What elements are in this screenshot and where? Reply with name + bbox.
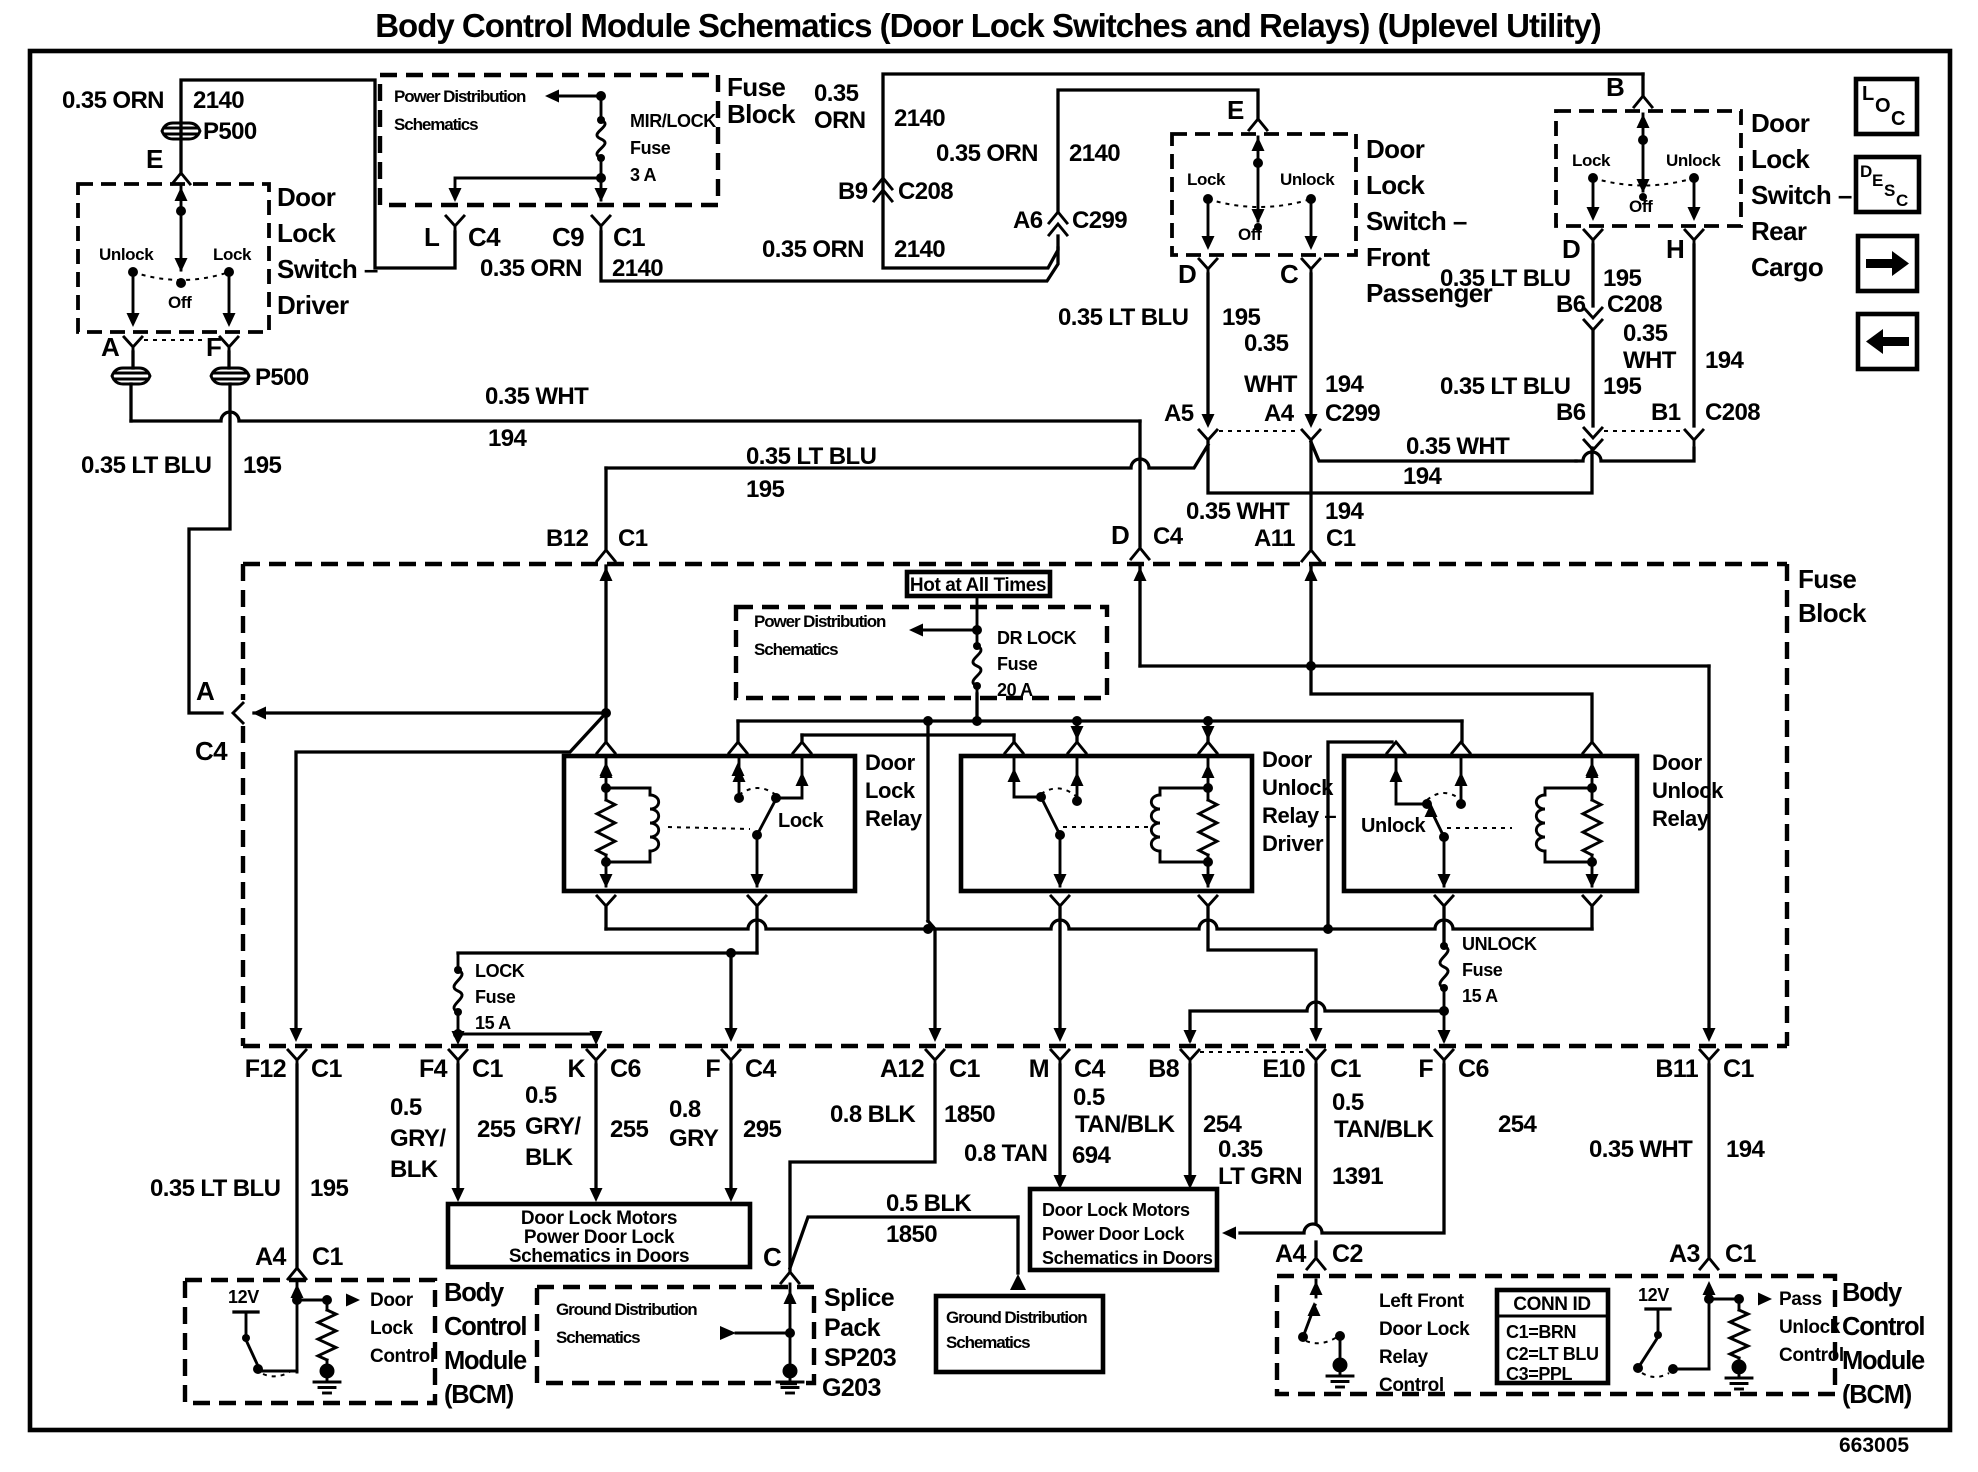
fuse UNLOCK 15A [1440, 946, 1448, 988]
svg-text:Rear: Rear [1751, 216, 1807, 246]
svg-text:Front: Front [1366, 242, 1430, 272]
wire 0.35 ORN 2140 from C1 to connector C299 pin A6 [601, 232, 1058, 281]
wire to connector C4 pin A (driver lock feed) [254, 711, 606, 714]
svg-text:0.5 BLK: 0.5 BLK [886, 1190, 972, 1217]
svg-text:F12: F12 [245, 1055, 286, 1083]
svg-text:194: 194 [1325, 371, 1364, 398]
svg-text:K: K [568, 1055, 586, 1083]
svg-text:C2=LT BLU: C2=LT BLU [1506, 1344, 1599, 1364]
wire 254 / 0.35 LT GRN from B8 to door lock motors [1188, 1065, 1191, 1180]
BCM door lock control driver [296, 1283, 299, 1372]
svg-text:C1: C1 [1330, 1055, 1361, 1083]
svg-text:Off: Off [1629, 197, 1653, 216]
unlock relay coil [1591, 756, 1594, 800]
svg-text:Pass: Pass [1779, 1289, 1822, 1310]
svg-text:O: O [1875, 95, 1891, 117]
svg-text:C: C [1891, 108, 1905, 130]
svg-text:0.8 BLK: 0.8 BLK [830, 1101, 916, 1128]
svg-text:Hot at All Times: Hot at All Times [910, 575, 1046, 596]
svg-text:Door: Door [1652, 750, 1703, 775]
svg-text:A3: A3 [1669, 1240, 1700, 1268]
ground distribution schematics reference box (solid) [936, 1296, 1103, 1372]
wire 0.35 WHT 194 from driver A to fuse block pin D C4 [1138, 421, 1141, 546]
svg-text:Schematics in Doors: Schematics in Doors [1042, 1248, 1213, 1268]
svg-text:Unlock: Unlock [1779, 1317, 1841, 1338]
svg-text:Door: Door [865, 750, 916, 775]
grommet P500 (driver E wire) [162, 123, 200, 139]
svg-text:CONN ID: CONN ID [1513, 1294, 1590, 1315]
svg-text:SP203: SP203 [824, 1344, 896, 1372]
svg-text:0.5: 0.5 [1073, 1084, 1105, 1111]
svg-text:Relay –: Relay – [1262, 803, 1336, 828]
svg-text:Driver: Driver [277, 290, 349, 320]
svg-text:D: D [1178, 259, 1196, 289]
svg-text:2140: 2140 [193, 87, 244, 114]
svg-text:GRY: GRY [669, 1125, 719, 1152]
svg-text:1850: 1850 [886, 1221, 937, 1248]
wire from junction to door lock relay coil [604, 713, 607, 742]
svg-text:C208: C208 [1607, 291, 1662, 318]
wire unlock relay driver armature to pin M [1058, 908, 1061, 1032]
svg-text:0.35: 0.35 [1244, 330, 1289, 357]
svg-text:GRY/: GRY/ [390, 1125, 446, 1152]
svg-text:UNLOCK: UNLOCK [1462, 934, 1537, 954]
wire from A6 to front passenger switch pin E [1058, 90, 1258, 212]
svg-text:C208: C208 [1705, 399, 1760, 426]
svg-text:Driver: Driver [1262, 831, 1324, 856]
svg-text:Schematics: Schematics [394, 115, 478, 134]
svg-text:C299: C299 [1325, 400, 1380, 427]
svg-text:B: B [1606, 72, 1624, 102]
unlock relay driver switch contacts [1014, 756, 1038, 797]
wire from return bus up to door unlock relay left contact [1328, 742, 1392, 929]
svg-text:S: S [1884, 181, 1895, 200]
svg-text:Block: Block [1798, 598, 1867, 628]
icon back arrow [1858, 314, 1917, 369]
wire 194 from A5 to B6 (lower run) [1208, 442, 1592, 493]
svg-text:0.35 ORN: 0.35 ORN [480, 255, 582, 282]
svg-text:0.35 WHT: 0.35 WHT [1589, 1136, 1693, 1163]
svg-text:0.5: 0.5 [525, 1082, 557, 1109]
svg-text:Lock: Lock [1751, 144, 1810, 174]
wire D/C4 + A11/C1 merged feed inside fuse block [1138, 566, 1141, 666]
power distribution schematics reference (dashed box, DR LOCK fuse) [736, 607, 1107, 698]
svg-text:Unlock: Unlock [1262, 775, 1334, 800]
svg-text:Lock: Lock [865, 778, 916, 803]
svg-text:E: E [1872, 171, 1883, 190]
svg-text:Fuse: Fuse [997, 654, 1038, 674]
svg-text:1850: 1850 [944, 1101, 995, 1128]
body control module BCM (dashed box, left) [185, 1280, 435, 1403]
svg-text:BLK: BLK [525, 1144, 574, 1171]
svg-text:Switch –: Switch – [1366, 206, 1467, 236]
svg-text:B8: B8 [1148, 1055, 1179, 1083]
pass unlock control output [1703, 1281, 1716, 1295]
svg-text:B6: B6 [1556, 291, 1586, 318]
svg-text:LT GRN: LT GRN [1218, 1163, 1302, 1190]
svg-text:A4: A4 [1264, 400, 1295, 427]
bus drop to door unlock relay driver coil [1203, 716, 1213, 726]
door lock switch - driver (dashed box) [78, 184, 269, 332]
svg-text:0.35 WHT: 0.35 WHT [485, 383, 589, 410]
svg-text:Lock: Lock [213, 245, 252, 264]
wire 0.35 WHT from A4 to B1 [1311, 442, 1576, 461]
wire 0.35 LT BLU 195 from pin F down to BCM A4/C1 [189, 384, 230, 713]
wire 0.35 LT BLU 195 net (B12 to A5 to B6) [604, 468, 607, 550]
svg-text:A11: A11 [1254, 525, 1295, 552]
svg-text:Unlock: Unlock [1652, 778, 1724, 803]
svg-text:C1=BRN: C1=BRN [1506, 1322, 1576, 1342]
svg-text:A6: A6 [1013, 207, 1043, 234]
svg-text:Lock: Lock [277, 218, 336, 248]
svg-text:LOCK: LOCK [475, 961, 525, 981]
svg-text:0.35 LT BLU: 0.35 LT BLU [746, 443, 876, 470]
svg-text:G203: G203 [822, 1374, 881, 1402]
relay K3 door unlock relay (box) [1344, 756, 1637, 891]
wire 0.35 WHT 194 from B11 to BCM A3 C1 [1707, 1065, 1710, 1256]
svg-text:Fuse: Fuse [1462, 960, 1503, 980]
svg-text:Door Lock Motors: Door Lock Motors [1042, 1200, 1190, 1220]
svg-text:A5: A5 [1164, 400, 1194, 427]
svg-text:255: 255 [610, 1116, 648, 1143]
svg-text:Power Distribution: Power Distribution [754, 612, 886, 631]
svg-text:Body: Body [1842, 1279, 1903, 1307]
svg-text:Left Front: Left Front [1379, 1291, 1465, 1312]
wire 0.35 WHT 194 from pin H to C208 B1 [1692, 245, 1695, 426]
wire 0.35 WHT 194 from pin C to C299 A4 [1309, 274, 1312, 420]
fuse MIR/LOCK 3A [600, 96, 603, 120]
wire 0.35 LT BLU 195 from pin D to C208 B6 [1591, 245, 1594, 306]
svg-text:H: H [1666, 234, 1684, 264]
svg-text:Power Door Lock: Power Door Lock [1042, 1224, 1185, 1244]
svg-text:0.35: 0.35 [814, 80, 859, 107]
svg-text:WHT: WHT [1244, 371, 1298, 398]
svg-text:Fuse: Fuse [630, 138, 671, 158]
svg-text:GRY/: GRY/ [525, 1113, 581, 1140]
grommet P500 (driver F wire) [227, 352, 230, 368]
svg-text:Fuse: Fuse [727, 72, 785, 102]
svg-text:Door: Door [277, 182, 336, 212]
svg-text:(BCM): (BCM) [444, 1381, 514, 1409]
svg-text:195: 195 [1603, 265, 1641, 292]
LOCK fuse output to pins F4 and K [457, 1034, 460, 1040]
svg-text:B9: B9 [838, 178, 868, 205]
svg-text:DR LOCK: DR LOCK [997, 628, 1077, 648]
svg-text:0.35 WHT: 0.35 WHT [1186, 498, 1290, 525]
svg-text:C4: C4 [468, 222, 501, 252]
svg-text:MIR/LOCK: MIR/LOCK [630, 111, 716, 131]
svg-text:12V: 12V [1638, 1285, 1669, 1305]
svg-text:C1: C1 [472, 1055, 503, 1083]
svg-text:C2: C2 [1332, 1240, 1363, 1268]
driver switch common feed arrow and Off contact [180, 187, 183, 270]
unlock relay switch contacts [1396, 756, 1424, 804]
svg-text:Schematics: Schematics [946, 1333, 1030, 1352]
wire from merge to door unlock relay coil [1311, 666, 1592, 742]
ground distribution schematics reference (dashed box) [537, 1287, 814, 1383]
relay 2 bottom pins [1051, 896, 1069, 906]
svg-text:Unlock: Unlock [1666, 151, 1721, 170]
dashed link at pins B8/E10 [1200, 1051, 1307, 1053]
wire 0.8 TAN / 0.5 TAN/BLK 694 from M to door lock motors [1058, 1065, 1061, 1180]
icon forward arrow [1858, 236, 1917, 291]
svg-text:Ground Distribution: Ground Distribution [556, 1300, 697, 1319]
svg-text:Block: Block [727, 99, 796, 129]
svg-text:D: D [1562, 234, 1580, 264]
icon LOC [1856, 79, 1917, 134]
svg-text:15 A: 15 A [1462, 986, 1498, 1006]
connector id legend table [1497, 1290, 1608, 1383]
svg-text:(BCM): (BCM) [1842, 1381, 1912, 1409]
svg-text:C1: C1 [312, 1243, 343, 1271]
svg-text:Control: Control [1779, 1345, 1844, 1366]
svg-text:0.5: 0.5 [390, 1094, 422, 1121]
wire 0.35 LT BLU 195 from F12 to BCM A4 [295, 1065, 298, 1268]
svg-text:B6: B6 [1556, 399, 1586, 426]
wire 0.5 GRY/BLK 255 from F4 to door lock motors [456, 1065, 459, 1190]
fuse block bottom pin row [288, 1050, 306, 1060]
wire 0.8 BLK 1850 from A12 to splice pack [790, 1065, 935, 1270]
svg-text:BLK: BLK [390, 1156, 439, 1183]
svg-text:194: 194 [488, 425, 527, 452]
svg-text:195: 195 [1603, 373, 1641, 400]
driver switch Off arc [133, 272, 229, 280]
svg-text:Fuse: Fuse [475, 987, 516, 1007]
svg-text:C1: C1 [613, 222, 645, 252]
passenger switch Off arc [1208, 199, 1311, 207]
splice pack SP203 with ground G203 [789, 1284, 792, 1366]
svg-text:2140: 2140 [1069, 140, 1120, 167]
resistor (door lock control pull-down) [326, 1300, 329, 1310]
wire 0.35 LT BLU 195 below C208 B6 [1591, 330, 1594, 426]
svg-text:254: 254 [1498, 1111, 1537, 1138]
BCM internal switch (door lock) [246, 1340, 258, 1366]
svg-text:Control: Control [370, 1346, 435, 1367]
svg-text:D: D [1111, 520, 1129, 550]
fuse block (main, dashed box) [243, 562, 1787, 566]
svg-text:195: 195 [1222, 304, 1260, 331]
relay 1 bottom pins [597, 896, 615, 906]
svg-text:194: 194 [1403, 463, 1442, 490]
wire 0.8 GRY 295 from F to door lock motors [729, 1065, 732, 1190]
svg-text:C4: C4 [1074, 1055, 1105, 1083]
resistor (pass unlock pull-down) [1738, 1299, 1741, 1310]
svg-text:194: 194 [1325, 498, 1364, 525]
svg-text:195: 195 [746, 476, 784, 503]
svg-text:0.5: 0.5 [1332, 1089, 1364, 1116]
wire 0.5 BLK 1850 from splice to ground distribution [790, 1217, 1018, 1268]
wire 0.35 WHT 194 from pin A to connector C4 pin D area [129, 384, 132, 421]
svg-text:B11: B11 [1655, 1055, 1698, 1083]
svg-text:A12: A12 [880, 1055, 924, 1083]
svg-text:C1: C1 [1723, 1055, 1754, 1083]
svg-text:F: F [1418, 1055, 1433, 1083]
svg-text:E: E [146, 144, 163, 174]
wire unlock relay driver coil to pin E10 [1208, 908, 1316, 1032]
relay 3 bottom pins [1435, 896, 1453, 906]
svg-text:Schematics: Schematics [556, 1328, 640, 1347]
label Hot at All Times [907, 572, 1050, 596]
door lock relay armature (Lock position) [752, 830, 762, 840]
svg-text:C299: C299 [1072, 207, 1127, 234]
door lock relay armature output [756, 835, 759, 886]
fuse DR LOCK 20A [976, 596, 979, 646]
unlock relay driver armature [1055, 830, 1065, 840]
wire 0.5 TAN/BLK 254 from F C6 into door lock motors box [1240, 1065, 1444, 1233]
svg-text:C6: C6 [610, 1055, 641, 1083]
door lock relay switch contacts [738, 756, 741, 798]
svg-text:0.35 LT BLU: 0.35 LT BLU [1440, 373, 1570, 400]
svg-text:Power Door Lock: Power Door Lock [524, 1227, 675, 1248]
svg-text:L: L [424, 222, 440, 252]
svg-text:Lock: Lock [1572, 151, 1611, 170]
svg-text:TAN/BLK: TAN/BLK [1075, 1111, 1176, 1138]
svg-text:Module: Module [1842, 1347, 1925, 1375]
svg-text:0.35 LT BLU: 0.35 LT BLU [150, 1175, 280, 1202]
svg-text:Ground Distribution: Ground Distribution [946, 1308, 1087, 1327]
fuse block (top, dashed box) [380, 75, 718, 205]
svg-text:C3=PPL: C3=PPL [1506, 1364, 1573, 1384]
door lock switch - front passenger (dashed box) [1172, 134, 1356, 255]
svg-text:15 A: 15 A [475, 1013, 511, 1033]
svg-text:Relay: Relay [865, 806, 923, 831]
svg-text:Control: Control [444, 1313, 526, 1341]
svg-text:C6: C6 [1458, 1055, 1489, 1083]
wire 0.5 TAN/BLK 1391 from E10 to BCM A4 C2 [1314, 1065, 1317, 1256]
svg-text:E10: E10 [1262, 1055, 1305, 1083]
bus drop to door unlock relay driver contact [1072, 716, 1082, 726]
ground (pass unlock) [1732, 1360, 1747, 1375]
svg-text:Relay: Relay [1379, 1347, 1429, 1368]
svg-text:Splice: Splice [824, 1284, 895, 1312]
svg-text:12V: 12V [228, 1287, 259, 1307]
door lock switch - rear cargo (dashed box) [1556, 111, 1741, 226]
svg-text:195: 195 [310, 1175, 348, 1202]
bus riser to relay contacts (door lock relay / unlock relay driver) [923, 716, 933, 726]
wire 0.35 ORN 2140 through connector C208 pin B9 [883, 74, 1643, 268]
svg-text:0.35 WHT: 0.35 WHT [1406, 433, 1510, 460]
wire A12 ground drop [928, 921, 935, 1032]
svg-text:0.35 LT BLU: 0.35 LT BLU [1058, 304, 1188, 331]
door lock motors reference box (right) [1030, 1189, 1217, 1270]
svg-text:D: D [1860, 162, 1872, 181]
svg-text:0.35 ORN: 0.35 ORN [62, 87, 164, 114]
fuse LOCK 15A [457, 953, 460, 970]
svg-text:A: A [196, 676, 215, 706]
svg-text:Lock: Lock [370, 1318, 414, 1339]
svg-text:C1: C1 [949, 1055, 980, 1083]
rear cargo switch Off arc [1593, 178, 1694, 186]
svg-text:C1: C1 [311, 1055, 342, 1083]
svg-text:C1: C1 [1326, 525, 1356, 552]
door lock motors reference box (left) [448, 1204, 750, 1267]
svg-text:2140: 2140 [612, 255, 663, 282]
svg-text:ORN: ORN [814, 107, 866, 134]
wire B12 feed into fuse block junction [604, 566, 607, 713]
UNLOCK fuse output to pins F C6 and B8 [1443, 1011, 1446, 1040]
hot bus from DR LOCK fuse [975, 694, 978, 721]
rear cargo switch common feed and Off contact [1642, 114, 1645, 191]
svg-text:254: 254 [1203, 1111, 1242, 1138]
wire from MIR/LOCK fuse to pins L and C9 [600, 158, 603, 200]
svg-text:194: 194 [1705, 347, 1744, 374]
door lock relay coil (resistor + inductor) [605, 756, 608, 800]
unlock relay driver coil [1207, 756, 1210, 800]
body control module BCM (dashed box, right) [1277, 1276, 1835, 1394]
svg-text:C4: C4 [1153, 523, 1184, 550]
svg-text:Lock: Lock [1366, 170, 1425, 200]
svg-text:C4: C4 [195, 736, 228, 766]
svg-text:A4: A4 [1275, 1240, 1306, 1268]
relay K2 door unlock relay - driver (box) [961, 756, 1252, 891]
dashed link under driver switch pins [144, 339, 206, 341]
svg-text:Control: Control [1842, 1313, 1924, 1341]
wire down right side to pin B11 [1707, 666, 1710, 1032]
svg-text:2140: 2140 [894, 105, 945, 132]
svg-text:20 A: 20 A [997, 680, 1033, 700]
svg-text:Lock: Lock [778, 810, 824, 832]
svg-text:255: 255 [477, 1116, 515, 1143]
svg-text:F4: F4 [419, 1055, 448, 1083]
svg-text:C4: C4 [745, 1055, 776, 1083]
wire 0.35 ORN 2140 to driver switch pin E [181, 80, 455, 268]
svg-text:Relay: Relay [1652, 806, 1710, 831]
svg-text:0.8: 0.8 [669, 1096, 701, 1123]
left front door lock relay control switch [1315, 1280, 1318, 1297]
svg-text:Power Distribution: Power Distribution [394, 87, 526, 106]
svg-text:2140: 2140 [894, 236, 945, 263]
svg-text:TAN/BLK: TAN/BLK [1334, 1116, 1435, 1143]
svg-text:C208: C208 [898, 178, 953, 205]
svg-text:Door Lock Motors: Door Lock Motors [521, 1208, 677, 1229]
svg-text:C1: C1 [1725, 1240, 1756, 1268]
svg-text:C: C [763, 1242, 782, 1272]
svg-text:M: M [1029, 1055, 1049, 1083]
svg-text:Schematics in Doors: Schematics in Doors [509, 1246, 689, 1267]
ground (BCM left) [320, 1364, 335, 1379]
svg-text:Schematics: Schematics [754, 640, 838, 659]
svg-text:0.35 LT BLU: 0.35 LT BLU [81, 452, 211, 479]
svg-text:0.8 TAN: 0.8 TAN [964, 1140, 1047, 1167]
svg-text:195: 195 [243, 452, 281, 479]
grommet P500 (driver A wire) [131, 352, 134, 368]
svg-text:B12: B12 [546, 525, 588, 552]
svg-text:Switch –: Switch – [277, 254, 378, 284]
icon DESC [1856, 157, 1919, 212]
wire 0.35 LT BLU 195 from pin D to C299 A5 [1206, 274, 1209, 420]
passenger switch common feed and Off contact [1257, 137, 1260, 221]
svg-text:Door: Door [1262, 747, 1313, 772]
svg-text:0.35 LT BLU: 0.35 LT BLU [1440, 265, 1570, 292]
svg-text:WHT: WHT [1623, 347, 1677, 374]
svg-text:3 A: 3 A [630, 165, 657, 185]
svg-text:Off: Off [168, 293, 192, 312]
svg-text:F: F [705, 1055, 720, 1083]
return bus across fuse block [604, 908, 607, 929]
svg-text:694: 694 [1072, 1142, 1111, 1169]
svg-text:P500: P500 [203, 118, 257, 145]
svg-text:B1: B1 [1651, 399, 1681, 426]
svg-text:Unlock: Unlock [1361, 815, 1427, 837]
svg-text:Lock: Lock [1187, 170, 1226, 189]
svg-text:C1: C1 [618, 525, 648, 552]
svg-text:Door Lock: Door Lock [1379, 1319, 1470, 1340]
svg-text:Unlock: Unlock [1280, 170, 1335, 189]
svg-text:E: E [1227, 95, 1244, 125]
svg-text:L: L [1862, 83, 1874, 105]
svg-text:0.35: 0.35 [1623, 320, 1668, 347]
svg-text:P500: P500 [255, 364, 309, 391]
